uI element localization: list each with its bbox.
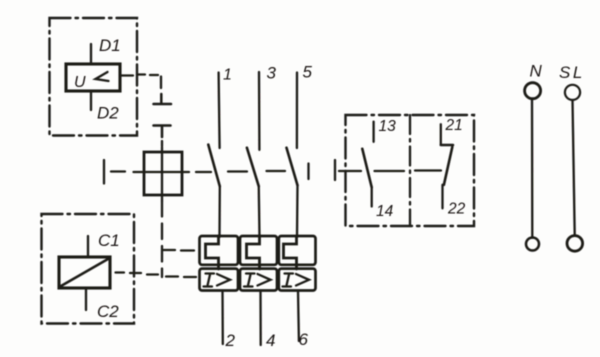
aux NO terminal 14 wire bbox=[371, 187, 373, 206]
heater element pole 2 bbox=[247, 236, 260, 269]
wire coil to terminal D2 bbox=[90, 91, 92, 110]
auxiliary enclosure divider bbox=[409, 115, 411, 226]
magnetic trip box pole 3 (I>) bbox=[279, 269, 316, 291]
svg-text:4: 4 bbox=[266, 331, 275, 350]
magnetic trip box pole 1 (I>) bbox=[200, 269, 239, 291]
thermal element box pole 3 bbox=[279, 236, 316, 265]
svg-text:3: 3 bbox=[267, 64, 277, 83]
linkage dash left of mechanism bbox=[111, 170, 125, 172]
aux NC contact blade bbox=[444, 147, 452, 185]
mechanism cross horizontal bbox=[134, 171, 190, 173]
terminal 3 wire bbox=[258, 72, 261, 150]
svg-text:5: 5 bbox=[303, 63, 313, 82]
aux linkage tick bbox=[334, 160, 336, 180]
shunt release trip link (dashed) bbox=[116, 273, 197, 278]
pole 2 lower wire bbox=[258, 186, 261, 237]
aux NC fixed contact stub bbox=[441, 144, 453, 147]
shunt release coil bbox=[59, 257, 110, 288]
pole 2 contact blade bbox=[247, 148, 259, 187]
terminal 2 wire bbox=[221, 291, 224, 345]
pole 3 contact blade bbox=[287, 148, 298, 186]
pole 3 lower wire bbox=[296, 185, 299, 237]
thermal element box pole 2 bbox=[240, 236, 277, 265]
aux NO contact blade bbox=[362, 149, 371, 188]
undervoltage release enclosure (dash-dot box) bbox=[50, 18, 138, 136]
svg-text:22: 22 bbox=[447, 201, 466, 218]
magnetic trip box pole 2 (I>) bbox=[240, 269, 277, 291]
neutral conductor wire N bbox=[531, 100, 534, 238]
latch symbol lower bbox=[154, 126, 171, 138]
trip linkage through poles (dashed) bbox=[196, 171, 285, 172]
linkage right end tick bbox=[307, 164, 309, 180]
heater element pole 1 bbox=[206, 236, 219, 269]
wire terminal C1 to shunt coil bbox=[87, 236, 89, 256]
aux NC terminal 22 wire bbox=[441, 185, 443, 209]
shunt release enclosure (dash-dot box) bbox=[42, 214, 135, 324]
operating mechanism box bbox=[144, 152, 182, 195]
svg-text:13: 13 bbox=[379, 118, 397, 135]
svg-text:U: U bbox=[74, 74, 86, 91]
terminal 5 wire bbox=[296, 73, 298, 149]
svg-text:SL: SL bbox=[559, 63, 585, 82]
auxiliary contact enclosure (dash-dot box) bbox=[346, 115, 475, 226]
wire coil to terminal C2 bbox=[85, 288, 87, 310]
svg-text:14: 14 bbox=[376, 203, 394, 220]
signal conductor wire SL bbox=[573, 100, 575, 234]
trip linkage U< coil to latch (dashed) bbox=[120, 75, 161, 89]
terminal N bottom ring bbox=[526, 238, 539, 251]
pole 1 lower wire bbox=[218, 186, 221, 237]
aux trip linkage dashes bbox=[339, 169, 441, 172]
mechanism cross vertical bbox=[161, 147, 163, 201]
svg-text:6: 6 bbox=[299, 330, 309, 349]
thermal element box pole 1 bbox=[200, 236, 239, 265]
svg-text:C2: C2 bbox=[97, 302, 119, 321]
heater element pole 3 bbox=[284, 236, 297, 269]
terminal N top ring bbox=[525, 83, 541, 99]
svg-text:C1: C1 bbox=[98, 231, 120, 250]
svg-text:21: 21 bbox=[445, 117, 463, 134]
linkage left end tick bbox=[103, 160, 105, 184]
svg-text:D1: D1 bbox=[99, 36, 121, 55]
pole 1 contact blade bbox=[208, 145, 220, 187]
aux NO terminal 13 wire bbox=[372, 122, 374, 142]
aux NC terminal 21 wire bbox=[440, 124, 442, 145]
terminal SL top ring bbox=[565, 85, 580, 100]
svg-text:1: 1 bbox=[223, 67, 232, 84]
undervoltage release coil U< bbox=[66, 64, 120, 91]
terminal 4 wire bbox=[259, 291, 262, 346]
terminal 1 wire bbox=[219, 73, 220, 149]
overload trip stub upper (dashed) bbox=[164, 249, 195, 252]
latch symbol upper bbox=[154, 94, 172, 104]
wire terminal D1 to undervoltage coil bbox=[90, 44, 92, 63]
terminal SL bottom ring bbox=[567, 236, 583, 252]
svg-text:D2: D2 bbox=[97, 104, 119, 123]
linkage vertical to releases (dashed) bbox=[161, 201, 163, 277]
svg-text:2: 2 bbox=[225, 331, 236, 350]
svg-text:N: N bbox=[530, 62, 543, 81]
linkage dash latch to mechanism bbox=[161, 141, 163, 146]
terminal 6 wire bbox=[297, 291, 300, 342]
